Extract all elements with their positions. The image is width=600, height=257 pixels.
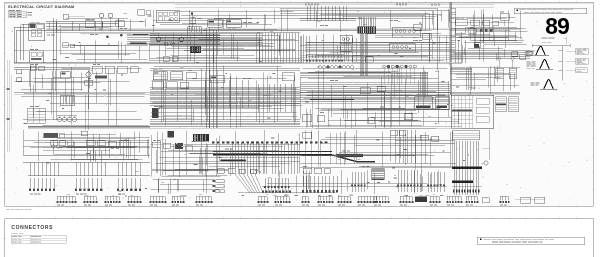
pin circles group 1 [305,4,307,6]
mid tiny labels 3 [330,79,334,82]
wires into block [450,91,520,93]
wire mesh top-center [365,14,442,16]
relay chain row 2 [455,28,465,33]
bundle dark dash bar 1 [133,34,148,35]
bottom cluster top labels [428,194,430,197]
bottom connector group 10 [318,195,332,197]
left region tiny labels [47,34,50,37]
dark fuse box lower [193,134,209,142]
wire mesh center-right lower [319,109,416,111]
module box B [171,72,183,80]
signal bus rows [150,33,262,35]
heavy bus lower [213,154,332,156]
voltmeter gauge [108,13,113,18]
lower bus rows [150,58,300,60]
vertical reference line [566,37,568,45]
battery [60,96,75,106]
vertical feeders [52,18,54,63]
bottom connector group 8 [258,195,267,197]
pin circle row mid [319,66,322,69]
node dot 2 [120,34,122,36]
battery relay box [29,24,45,41]
glow plugs [58,118,62,122]
wire mesh lower-center-right [332,154,415,156]
center verticals [311,90,313,128]
key switch [86,72,91,77]
label flecks middle [396,72,399,75]
node dot 1 [106,36,108,38]
waveform label box 3 [576,68,588,73]
wire bundle to center [127,33,220,35]
comb group right A [496,97,507,112]
meter feed box [116,21,125,27]
svg-text:89: 89 [545,13,569,39]
upper-left feeder wires [46,20,122,22]
dark pin dash row [212,142,215,144]
dark bus blob [336,154,363,157]
module box A [153,72,167,80]
left edge connector wires [14,67,90,69]
pin circles group 3 [431,4,433,6]
wire mesh lower combs extra [267,182,428,184]
bottom connector group 7 [196,195,211,197]
left wire L [22,130,24,155]
center band extra wires [300,55,462,57]
scan tone wash [5,2,593,206]
long span wire 5 [28,126,462,128]
lower boxes center [302,115,312,122]
bottom connector cluster 2 [75,178,77,188]
bottom dark box [415,197,427,203]
lower dash row extra [262,191,264,193]
waveform top rail [532,45,570,47]
bottom connector cluster 1 [29,178,31,188]
applicable machine note [9,9,16,12]
applicable machine table [9,11,27,18]
lamp circle small 2 [171,42,175,46]
bottom connector group 12 [400,195,412,197]
page 1 border frame [5,2,594,206]
module box C [187,72,197,79]
bottom extra group 5 [374,195,388,197]
striped block [372,169,384,180]
lamp circle [179,37,184,42]
long span wire 4 [50,102,450,104]
terminal comb block [453,131,480,140]
lower tiny labels 2 [153,139,156,142]
bottom connector cluster 3 [117,178,119,188]
connectors applicable machine note [12,232,19,235]
left margin verticals [7,60,9,152]
bottom connector group 1 [57,195,75,197]
wires down right [488,25,490,40]
lower right-center boxes [420,135,428,140]
wire mesh left mid [77,62,136,64]
ecu box 2 [389,44,415,53]
scan speckle [404,8,405,11]
relay box small [138,10,145,16]
center long verticals lower [304,130,306,168]
waveform pulse 3 [544,80,548,89]
relay chain row 1 [455,20,467,26]
left column connector bits [451,8,456,12]
junction box B [226,20,241,28]
pump unit box [415,97,433,110]
label flecks upper [139,20,143,23]
bottom connector group 5 [150,195,165,197]
waveform pulse 1 [536,47,540,56]
bus link lines [300,18,356,20]
ladder comb group A [351,172,353,192]
bus pair upper [150,68,300,70]
dark vertical stripe [205,28,207,128]
heavy bus diagonal [332,155,358,162]
long span wire 1 [14,50,455,52]
wire mesh center dense [158,106,259,108]
fuse block dark [190,47,201,54]
small box lower [81,131,88,136]
bottom connector group 3 [105,195,119,197]
instrument box 2 [96,21,103,27]
top boxes lower-center [390,130,398,136]
lower web boxes [152,142,161,147]
right upper extra [459,36,518,38]
waveform pulse 1 labels [525,50,529,53]
wire fan [235,174,250,193]
lower h bundle [150,119,300,121]
connector grid table [28,108,46,123]
long verticals center [208,70,210,128]
bundle down corner [300,71,428,73]
dark blob lower-left [152,108,159,118]
rail drops [29,162,31,175]
drop bundle to connector [255,33,257,63]
dark box right [474,44,479,48]
bottom connector group 13 [447,195,461,197]
box E [500,14,509,21]
lower ladder combs [264,178,266,193]
small comp pair [31,66,37,71]
ruler tick marks page 1 [21,1,23,3]
wire mesh center-right dense [308,78,433,80]
alternator wires lower-left [43,147,150,149]
potentiometer [191,13,193,30]
harness connector bar (dark) [358,27,377,34]
wire mesh top-middle [181,14,297,16]
control unit box [156,11,179,23]
wire mesh lower-left-mid [163,169,209,171]
waveform panel heading [542,37,548,40]
mid link lines [375,35,462,37]
wire mesh lower-left [24,140,149,142]
alternator cluster [51,140,58,145]
bottom box pair [521,197,531,203]
long span wire 6 [150,143,300,145]
valve unit box [436,97,450,110]
wire mesh right band [456,73,516,75]
junction box A [208,20,223,28]
upper wire bundle [280,7,437,9]
comb group right B [509,97,519,112]
long rail upper [23,154,150,156]
page 2 border frame [5,218,594,220]
center tiny labels [320,24,324,27]
arrow plug rows [216,180,225,183]
module box E [282,73,295,81]
waveform pulse 2 [540,60,544,69]
area divider vertical [437,15,439,70]
mesh center [300,84,450,86]
lower comp rows [303,168,312,173]
waveform label box 2 [576,58,589,64]
comb field [231,143,233,174]
waveform label box 1 [576,48,589,54]
mid tiny labels [205,29,209,32]
bottom extra group 6 [430,195,439,197]
waveform right rail [562,46,564,81]
drawing number (bottom left page 1) [6,208,10,211]
lower-left cluster extra [71,159,143,161]
block right wires [489,130,491,160]
小 box C [422,33,431,39]
box D [352,56,362,63]
waveform link dashes [566,50,576,52]
wire mesh upper-left [61,26,109,28]
wire mesh lower-center [184,143,300,145]
ruler tick marks page 2 [21,218,23,220]
pin circle row mid 2 [383,65,386,68]
svg-text:ELECTRICAL CIRCUIT DIAGRAM: ELECTRICAL CIRCUIT DIAGRAM [8,5,74,9]
long rail lower [23,161,150,163]
switch box row [163,57,169,62]
fuse row A [188,27,202,34]
bottom connector group 11 [358,195,376,197]
mesh verticals [204,80,206,108]
mesh horizontals [150,87,300,89]
mid-left tiny labels [30,63,34,66]
row boxes 2 [152,82,164,89]
sensor towers [497,57,500,60]
ecu box [392,28,420,38]
center white fill wires [305,42,455,44]
starter box dark [44,133,59,138]
pressure switch circle [484,161,488,165]
bottom extra group 8 [500,195,508,197]
lamp circle small 1 [164,42,168,46]
wire mesh top-right [475,31,527,33]
lower tiny labels 3 [342,150,346,153]
wire mesh center band [330,51,419,53]
top-right link bundle [450,50,530,52]
component small A [63,43,69,48]
junction block large [451,95,494,128]
harness bundle below bar [360,34,362,77]
wire mesh lower-left-bottom [153,178,214,180]
thick net segment [310,99,354,101]
bottom connector group 9 [302,195,308,197]
component row under bus [217,169,224,174]
bottom connector group 2 [84,195,96,197]
fusible link box [30,51,44,63]
component small B [63,14,68,19]
long span wire 2 [14,62,462,64]
wire harness left edge [13,27,15,63]
left mid extra wires [24,80,80,82]
connectors table [11,235,66,243]
long span wire 3 [14,91,520,93]
main power bus [46,28,520,30]
bottom connector group 6 [172,195,183,197]
waveform pulse 3 labels [531,82,535,85]
right edge small boxes [512,52,518,57]
bottom extra group 3 [275,195,289,197]
mid rails lower [300,163,456,165]
svg-text:CONNECTORS: CONNECTORS [11,225,53,231]
wire mesh right drop [455,53,504,55]
pin circles group 2 [396,4,398,6]
note box (top right) [514,8,587,14]
mid tiny labels 2 [155,69,158,72]
wires mid-left [14,91,90,93]
drop bundle top feed [306,6,308,21]
bottom connector group 4 [128,195,140,197]
relay cluster mid [92,66,102,73]
top margin strip [175,3,494,5]
heavy bus upper [213,151,332,153]
heavy bus stub [221,160,247,162]
label flecks lower [86,152,90,155]
wire mesh mid-left band [62,67,142,69]
right tiny labels [456,17,460,20]
wire mesh mid band [203,49,292,51]
waveform pulse 2 labels [527,61,531,64]
dark comp [61,72,71,79]
sensor box [414,24,422,30]
horn circle [156,37,161,42]
module box D [210,76,225,83]
bottom small box [482,198,489,203]
ladder comb group C [427,172,429,192]
note box (page 2 right) [478,237,585,245]
bottom-left cluster x300 [302,176,304,190]
instrument box [86,21,95,28]
hour meter gauge [99,13,104,18]
long vertical divider x451 [450,2,452,95]
connector ladder row [306,54,344,56]
box F [360,88,370,94]
bottom extra group 4 [338,195,350,197]
relay with coils [340,35,352,43]
mini bundle right [450,67,472,69]
bottom extra group 7 [466,195,477,197]
bottom rail pair mid-left [28,125,150,127]
ladder comb group B [397,170,399,192]
bundle dark dash bar 2 [130,43,147,44]
